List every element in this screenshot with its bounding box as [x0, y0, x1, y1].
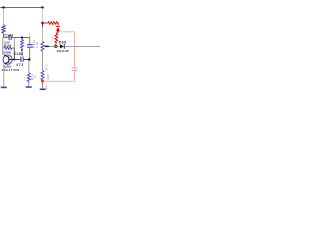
label rotated near resistor B value	[33, 75, 37, 79]
svg-text:472: 472	[16, 63, 24, 67]
svg-text:2N4148: 2N4148	[57, 49, 69, 53]
diode red triangle	[56, 27, 60, 31]
svg-text:220: 220	[46, 74, 50, 80]
wire right column between resistors	[42, 52, 44, 71]
wire left vertical	[3, 8, 5, 26]
wire base column x14	[13, 38, 15, 60]
wire output horizontal	[44, 45, 100, 47]
capacitor B horizontal plates	[27, 45, 33, 48]
transistor Q60	[3, 55, 14, 65]
wire horizontal node row y38	[3, 37, 30, 39]
wire pink horizontal bottom	[43, 80, 75, 82]
svg-text:R72: R72	[45, 64, 49, 70]
svg-text:R69: R69	[51, 35, 55, 41]
label rotated right of resistor D value	[46, 74, 50, 80]
wire pink vertical right	[74, 32, 76, 68]
node red junction top	[41, 22, 44, 25]
node junction right	[41, 6, 44, 9]
wire right column middle	[42, 24, 44, 42]
diode D68 triangle	[60, 44, 64, 48]
label value row1	[4, 41, 11, 45]
label rotated red resistor	[51, 35, 55, 41]
node red junction diode anode	[57, 30, 59, 32]
wire red resistor lead down	[55, 44, 57, 47]
capacitor C163	[14, 57, 29, 62]
diode D68 cathode bar	[63, 44, 65, 48]
svg-text:SP: SP	[44, 85, 48, 89]
svg-text:D68: D68	[59, 40, 67, 44]
resistor red vertical small	[55, 32, 58, 44]
terminal bar right	[40, 88, 46, 90]
wire stub above rail corner	[29, 33, 31, 38]
wire resistor A to base wire	[21, 50, 23, 57]
wire right column top	[42, 8, 44, 23]
resistor left edge vertical	[2, 25, 5, 33]
svg-text:220K: 220K	[3, 51, 12, 55]
label 2SC1740S	[2, 68, 20, 72]
label rotated col near cap B	[32, 40, 36, 48]
resistor red horizontal	[48, 22, 58, 26]
wire left connector vertical	[2, 38, 4, 55]
wire capacitor B column bottom	[28, 48, 31, 73]
resistor C vertical x42.5 upper	[41, 42, 44, 52]
label 472	[16, 63, 24, 67]
svg-text:1K: 1K	[33, 75, 37, 79]
label 2N4148	[57, 49, 69, 53]
node junction c163 right	[28, 58, 30, 60]
wire pink vertical below cap	[74, 71, 76, 81]
svg-text:C163: C163	[14, 52, 23, 56]
svg-text:2SC1740S: 2SC1740S	[2, 68, 20, 72]
wire below left resistor	[3, 33, 5, 38]
node junction rail-resistorA	[21, 36, 23, 38]
wire capacitor B column top	[29, 38, 31, 45]
label C161	[5, 33, 14, 37]
node junction left	[2, 6, 5, 9]
resistor B vertical bottom middle	[27, 73, 30, 83]
label C163	[14, 52, 23, 56]
resistor 220K horizontal	[3, 47, 15, 50]
diode red cathode bar	[56, 25, 60, 27]
node base junction	[13, 58, 15, 60]
terminal bar emitter	[1, 86, 7, 88]
terminal bar middle	[26, 86, 32, 88]
capacitor pink plates	[72, 68, 78, 71]
capacitor C161 plates	[9, 35, 11, 40]
wire right column to terminal	[42, 81, 44, 89]
node junction output left	[45, 45, 48, 47]
resistor D vertical x42.5 lower	[41, 71, 44, 81]
label rotated col2 near cap B	[35, 41, 39, 48]
node red junction bottom	[41, 80, 44, 83]
label rotated right of resistor D	[45, 64, 49, 70]
node red big junction on output wire	[54, 45, 57, 48]
label value row2	[4, 44, 12, 48]
label rotated right of terminal	[44, 85, 48, 89]
label Q60	[4, 64, 11, 68]
wire pink horizontal upper	[58, 31, 75, 33]
label D68	[59, 40, 67, 44]
svg-text:4.7K: 4.7K	[35, 41, 39, 48]
wire emitter down	[3, 64, 5, 88]
label rotated near resistor B	[30, 74, 34, 80]
wire resistor B to terminal	[28, 81, 30, 86]
node blue junction below resistor A	[21, 49, 23, 51]
resistor A vertical x22	[21, 38, 24, 50]
wire top rail	[0, 7, 43, 9]
label 220K	[3, 51, 12, 55]
wire red top branch	[43, 22, 49, 24]
